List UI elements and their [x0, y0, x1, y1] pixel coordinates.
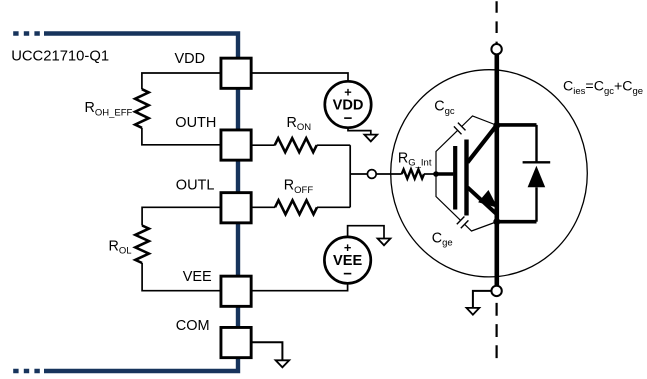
wire: R_G_Int to gate node [424, 173, 436, 175]
node: collector external terminal (open circle) [491, 44, 501, 54]
wire: diode to emitter (thick) [497, 220, 537, 224]
transistor IGBT body bar [464, 140, 468, 216]
wire: OUTL pin to R_OFF [252, 206, 275, 208]
transistor IGBT emitter stroke [468, 187, 497, 214]
ground: emitter ground symbol [467, 308, 480, 315]
pin box VEE [221, 276, 251, 306]
wire: C_ge branch (gate to emitter, thin) [436, 174, 496, 231]
voltage source VDD [325, 81, 371, 127]
capacitor C_ge plates [457, 217, 469, 229]
resistor R_G_Int [402, 169, 424, 178]
svg-text:UCC21710-Q1: UCC21710-Q1 [11, 49, 109, 65]
node: collector junction dot [493, 122, 500, 129]
wire: VEE supply to ground [348, 226, 384, 239]
resistor R_OFF [275, 200, 317, 214]
pin box COM [221, 327, 251, 357]
ground: VEE supply ground symbol [378, 239, 391, 246]
wire: VEE pin to VEE supply [252, 284, 348, 291]
svg-text:VEE: VEE [183, 269, 212, 285]
wire: diode anode lead [535, 187, 537, 221]
diode cathode bar [523, 161, 551, 163]
wire: OUTL pin to ROL loop top [142, 207, 219, 225]
svg-text:OUTH: OUTH [175, 115, 216, 131]
resistor R_ON [275, 138, 317, 152]
node: gate junction dot [433, 171, 439, 177]
svg-text:−: − [343, 265, 352, 282]
wire: diode cathode lead [535, 125, 537, 162]
pin box OUTL [221, 193, 251, 223]
diode anode triangle [528, 166, 546, 188]
ground: VDD supply ground symbol [364, 135, 377, 142]
svg-text:OUTL: OUTL [176, 178, 215, 194]
wire: ROL bottom to VEE pin [142, 263, 219, 291]
wire: output junction vertical [349, 145, 351, 207]
IGBT model boundary circle [391, 70, 588, 277]
wire: R_OFF to output junction [317, 206, 350, 208]
node: gate terminal (open circle) [367, 170, 376, 179]
ground: COM ground symbol [276, 360, 290, 367]
wire: VDD pin to ROH_EFF loop top [142, 73, 220, 89]
node: emitter junction dot [493, 218, 500, 225]
wire: C_gc branch (gate to collector, thin) [436, 116, 496, 174]
resistor R_OL [135, 226, 149, 264]
wire: collector dashed bus continuation [496, 1, 498, 43]
wire: collector-emitter bus (thick vertical) [494, 54, 499, 285]
resistor R_OH_EFF [135, 89, 149, 128]
capacitor C_gc plates [454, 123, 466, 135]
wire: COM pin to ground [252, 342, 282, 360]
svg-text:VDD: VDD [175, 51, 206, 67]
svg-text:−: − [344, 110, 353, 127]
wire: collector to diode (thick) [497, 123, 537, 127]
wire: R_ON to output junction [317, 144, 351, 146]
transistor IGBT collector stroke [468, 125, 498, 163]
pin box VDD [221, 58, 251, 88]
wire: top dashed stub of blue input bus [13, 31, 41, 35]
node: emitter external terminal (open circle) [491, 286, 501, 296]
transistor IGBT emitter arrowhead [480, 192, 495, 206]
voltage source VEE [324, 237, 370, 283]
wire: VDD supply to ground [348, 128, 371, 135]
wire: blue driver bus (top run, left vertical, bottom run) [44, 34, 238, 372]
wire: OUTH pin to R_ON [252, 144, 275, 146]
wire: emitter terminal to ground [473, 291, 491, 308]
svg-text:COM: COM [176, 318, 210, 334]
wire: emitter dashed bus continuation [496, 303, 498, 358]
transistor IGBT gate bar [453, 146, 457, 210]
pin box OUTH [221, 130, 251, 160]
wire: VDD pin to VDD supply [252, 73, 348, 81]
wire: ROH_EFF bottom to OUTH pin [142, 128, 220, 145]
transistor IGBT gate lead [436, 172, 453, 175]
wire: junction to gate terminal node [350, 173, 367, 175]
wire: node to R_G_Int [376, 173, 401, 175]
wire: bottom dashed stub of blue input bus [13, 369, 41, 373]
